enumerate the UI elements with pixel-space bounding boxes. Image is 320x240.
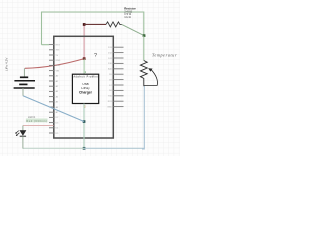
- IC U1 right pins: [113, 47, 123, 106]
- label: IC U1 right pin names: [107, 47, 112, 108]
- node: teal junction on bottom rail: [83, 147, 86, 150]
- wire: trimmer bottom lead: [143, 82, 145, 86]
- svg-text:Temperatur: Temperatur: [152, 53, 177, 58]
- svg-text:LED1: LED1: [28, 115, 36, 119]
- wire: green stub to left pin row 1: [42, 44, 50, 46]
- LED LED1 top lead: [22, 126, 24, 131]
- wire: red from battery plus to center junction: [25, 59, 84, 69]
- IC U1 left pins: [49, 45, 54, 133]
- svg-text:RST: RST: [56, 44, 61, 46]
- grid background: [0, 0, 180, 156]
- wire: blue diagonal from battery minus to gnd node: [23, 96, 84, 122]
- svg-text:GND: GND: [56, 65, 61, 67]
- resistor R1 zigzag: [106, 22, 122, 27]
- label: charger U2 title row: [74, 76, 98, 79]
- charger U2 body: [72, 74, 98, 103]
- node: maroon junction at resistor feed: [83, 23, 86, 26]
- wire: pink from LED anode to IC left edge: [23, 125, 54, 127]
- battery BT1 bottom lead: [22, 88, 24, 96]
- svg-text:LiPoly: LiPoly: [81, 86, 90, 90]
- wire: bottom rail from LED to right riser: [23, 147, 144, 149]
- trimmer R2 wiper arrow: [144, 68, 158, 85]
- label: charger U2 center text: [79, 82, 93, 94]
- svg-text:Adafruit ProMini: Adafruit ProMini: [74, 76, 98, 79]
- wire: maroon feed to resistor R1: [84, 23, 106, 25]
- label: battery BT1 (rotated): [5, 57, 9, 71]
- LED LED1 emission arrows: [15, 131, 19, 136]
- IC U1 main body: [54, 36, 114, 138]
- svg-text:Red (633nm): Red (633nm): [26, 119, 47, 123]
- label: charger U2 pin 1 (green): [85, 70, 87, 74]
- trimmer R2 zigzag: [140, 61, 147, 83]
- wire: green from center junction down to charger pin 1: [83, 59, 85, 74]
- battery BT1 plates: [14, 77, 35, 88]
- svg-text:?: ?: [94, 53, 97, 59]
- wire: pale green from charger pin 2 down to bottom rail: [83, 104, 85, 149]
- label: IC U1 designator ?: [94, 53, 97, 59]
- label: LED LED1 name: [26, 115, 48, 123]
- svg-text:Charger: Charger: [79, 90, 93, 94]
- label: resistor R1 value text: [124, 7, 136, 19]
- node: green junction on right rail: [143, 34, 146, 37]
- svg-text:VIN: VIN: [56, 70, 60, 72]
- svg-text:1kΩ: 1kΩ: [124, 15, 131, 19]
- svg-text:GND: GND: [107, 106, 112, 108]
- label: trimmer R2 name: [152, 53, 177, 58]
- LED LED1 symbol: [20, 131, 26, 137]
- svg-text:LiPo 4.2V: LiPo 4.2V: [5, 57, 9, 71]
- node: red junction at charger feed: [83, 57, 86, 60]
- wire: green rail down to trimmer: [143, 36, 145, 61]
- battery BT1 top lead: [23, 68, 25, 77]
- label: IC U1 left pin names: [56, 44, 61, 134]
- label: charger U2 pin 2 (orange): [84, 104, 86, 108]
- wire: green diagonal from resistor to right rail: [122, 24, 144, 35]
- svg-text:GND: GND: [56, 60, 61, 62]
- wire: green top rail from left riser to right riser: [42, 12, 144, 45]
- LED LED1 bottom lead: [22, 136, 24, 148]
- node: teal junction of battery-minus wire: [83, 120, 86, 123]
- wire: red vertical from center junction up to resistor node: [83, 24, 85, 58]
- wire: blue riser from trimmer down to bottom rail: [142, 86, 144, 149]
